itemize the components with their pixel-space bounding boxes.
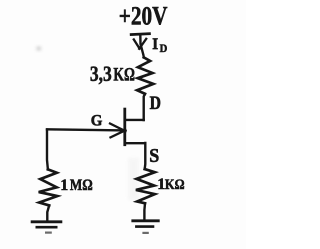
faint scan shading left of R3 xyxy=(128,158,139,200)
label 3,3Kohm xyxy=(90,61,135,86)
resistor R2 1Mohm xyxy=(39,169,58,205)
transistor Q1 gate arrowhead xyxy=(110,124,126,138)
wire R2 to ground xyxy=(47,205,49,221)
transistor Q1 gate lead wire xyxy=(47,129,125,130)
svg-text:1: 1 xyxy=(60,177,68,194)
resistor R3 1Kohm xyxy=(136,169,155,203)
resistor R1 3.3kohm xyxy=(137,57,153,93)
ground left xyxy=(31,222,63,233)
svg-text:G: G xyxy=(91,112,103,129)
label 1Mohm xyxy=(60,177,93,194)
svg-text:3,3: 3,3 xyxy=(90,61,112,86)
svg-text:D: D xyxy=(160,42,168,55)
svg-text:I: I xyxy=(152,36,158,54)
label 1Kohm xyxy=(157,175,185,193)
svg-text:D: D xyxy=(150,93,161,113)
transistor Q1 channel bar xyxy=(123,109,126,145)
transistor Q1 source lead xyxy=(125,142,146,144)
wire supply to R1 xyxy=(140,34,144,57)
wire R3 to ground xyxy=(143,203,146,220)
svg-text:MΩ: MΩ xyxy=(70,177,93,194)
ground right xyxy=(131,221,159,233)
transistor Q1 drain lead xyxy=(125,119,144,121)
svg-text:KΩ: KΩ xyxy=(113,65,134,86)
label ID xyxy=(152,36,167,55)
wire gate to R2 xyxy=(46,130,49,170)
supply terminal bar xyxy=(130,34,151,35)
wire R1 to drain xyxy=(144,94,145,120)
wire source to R3 xyxy=(143,143,146,169)
svg-text:KΩ: KΩ xyxy=(165,177,185,193)
faint scan smudge top-left xyxy=(37,47,42,51)
svg-text:S: S xyxy=(149,145,159,167)
current arrow ID xyxy=(134,39,146,49)
svg-text:+20V: +20V xyxy=(119,2,168,31)
